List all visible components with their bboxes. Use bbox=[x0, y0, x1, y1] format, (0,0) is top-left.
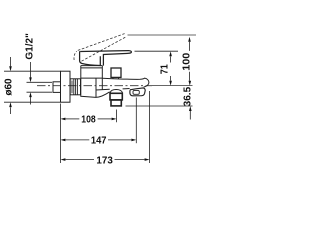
arrow 147 right bbox=[131, 139, 136, 142]
ext line top bbox=[27, 81, 53, 83]
ext line top (lever top level) bbox=[135, 50, 179, 52]
arrow 100 top bbox=[188, 37, 191, 42]
arrow 108 left bbox=[61, 118, 66, 121]
handle lever bbox=[80, 51, 131, 66]
arrow 71 top bbox=[169, 51, 172, 56]
union nut bbox=[70, 79, 80, 95]
arrow 71 bottom bbox=[169, 81, 172, 86]
body bbox=[81, 66, 110, 98]
dim line segments bbox=[30, 62, 32, 78]
dim 173 bbox=[65, 159, 144, 161]
wall stub bbox=[53, 82, 61, 93]
svg-text:ø60: ø60 bbox=[3, 78, 14, 96]
bonnet cap band bbox=[81, 66, 103, 68]
arrow 173 left bbox=[61, 158, 66, 161]
dim line tail below bbox=[189, 111, 191, 120]
svg-text:147: 147 bbox=[91, 136, 107, 147]
ext line spout tip bbox=[149, 91, 151, 163]
svg-text:36.5: 36.5 bbox=[183, 86, 194, 106]
arrow 108 right bbox=[112, 118, 117, 121]
spout bbox=[96, 78, 149, 90]
dim 71 bbox=[135, 51, 179, 80]
handle grip bbox=[80, 51, 101, 65]
phantom handle (open position, dashed) bbox=[74, 34, 126, 62]
ext line aerator axis bbox=[116, 110, 118, 123]
dim 108 bbox=[65, 118, 111, 120]
escutcheon bbox=[61, 71, 71, 102]
svg-text:173: 173 bbox=[96, 155, 113, 166]
dim 147 bbox=[65, 139, 131, 141]
ext line top bbox=[4, 70, 61, 72]
spout lip piece bbox=[130, 88, 145, 96]
svg-text:108: 108 bbox=[81, 115, 96, 126]
svg-text:G1/2": G1/2" bbox=[24, 33, 35, 60]
reference line handle max height (gray) bbox=[128, 34, 197, 36]
arrow 147 left bbox=[61, 139, 66, 142]
dim line segments bbox=[10, 57, 12, 66]
arrow ø60 bottom bbox=[9, 102, 12, 107]
dim 100 bbox=[189, 42, 191, 81]
diverter knob bbox=[111, 68, 121, 79]
arrow ø60 top bbox=[9, 66, 12, 71]
dim G1/2 bbox=[27, 62, 53, 105]
arrow G1/2 bottom bbox=[29, 92, 32, 97]
centerline axis bbox=[37, 85, 193, 87]
dim ø60 bbox=[4, 57, 61, 114]
svg-text:71: 71 bbox=[160, 64, 171, 74]
ext line bottom bbox=[4, 101, 61, 103]
dim 36.5 bbox=[126, 106, 193, 120]
arrow 173 right bbox=[145, 158, 150, 161]
dim line segments bbox=[170, 56, 172, 62]
ext line lip front bbox=[135, 98, 137, 144]
arrow 100 bottom (shared with 36.5 top) bbox=[189, 81, 192, 86]
svg-text:100: 100 bbox=[182, 52, 193, 70]
arrow G1/2 top bbox=[29, 77, 32, 82]
ext line bottom bbox=[27, 91, 53, 93]
arrow 36.5 bottom bbox=[189, 106, 192, 111]
ext line wall plane (left, vertical) bbox=[60, 104, 62, 164]
aerator bbox=[110, 90, 122, 93]
ext line bottom (aerator bottom level) bbox=[126, 105, 193, 107]
